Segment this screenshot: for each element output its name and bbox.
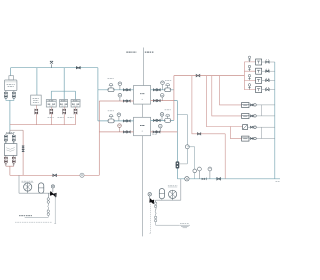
wire: tower2 left teal line bbox=[98, 120, 134, 122]
wire: gauge tap run bbox=[187, 147, 194, 179]
wire: PSV-2 vent bbox=[149, 204, 151, 233]
wire: branch riser 2 bbox=[206, 76, 242, 127]
gauge PI-9 bbox=[198, 167, 202, 171]
wire: main teal suction header bbox=[11, 67, 98, 69]
pulsation dampener D2 bbox=[159, 189, 164, 199]
block valves t1 left bottom bbox=[123, 100, 126, 102]
pump box P-1 bbox=[46, 100, 56, 107]
pump PD-2 label bbox=[168, 185, 178, 187]
wire: tower1 left red line bbox=[99, 100, 133, 102]
wire: branch 1 drop to header bbox=[224, 134, 226, 179]
gauge PI-10 bbox=[208, 167, 212, 171]
label row under discharge valves bbox=[48, 117, 55, 119]
pump PD-2 bbox=[169, 190, 177, 198]
wire: center skid pipe bbox=[156, 199, 181, 201]
block valves t1 right top bbox=[153, 89, 156, 91]
wire: hose drain run bbox=[25, 216, 49, 218]
discharge valves at x=75.5 bbox=[75, 107, 77, 109]
wire: header corner down to tower1 CV line bbox=[97, 68, 99, 90]
wire: tower2 right red line bbox=[151, 131, 178, 133]
relief valve PSV-2 gauge bbox=[148, 193, 151, 196]
node: drain label bbox=[19, 215, 32, 217]
wire: teal down to strainer bbox=[9, 100, 11, 130]
gauge PI-6 bbox=[160, 94, 164, 98]
wire: jog stub E1-E2 bbox=[261, 105, 263, 116]
wire: sampler column feed bbox=[243, 62, 245, 90]
gauge PI-4 bbox=[118, 124, 122, 128]
outlet valve E2 bbox=[250, 115, 253, 117]
node: line label B bbox=[145, 51, 154, 53]
node: drain label right bbox=[180, 223, 189, 225]
block valves t1 right bottom bbox=[153, 100, 156, 102]
dosing unit box B1 bbox=[31, 95, 42, 105]
wire: strainer inlet manifold bbox=[6, 130, 14, 135]
block valve t2 right bottom bbox=[153, 131, 156, 133]
strainer outlet valves right bbox=[12, 157, 15, 159]
vessel T-100 neck bbox=[9, 76, 14, 80]
relief valve PSV-1 bbox=[50, 192, 56, 197]
wire: vessel outlets bbox=[6, 91, 14, 93]
relief valve PSV-2 bbox=[150, 199, 154, 204]
flexible hose H1 bbox=[47, 193, 49, 198]
wire: jog stub SG1-E3 bbox=[261, 127, 263, 138]
block valves t1 left top bbox=[123, 89, 126, 91]
sampler unit S3 bbox=[248, 74, 261, 83]
pump box P-2 bbox=[60, 100, 68, 107]
dual check valve DC-1 bbox=[176, 161, 180, 168]
gauge PI-2 bbox=[118, 93, 122, 97]
wire: red supply main bbox=[10, 174, 99, 176]
wire: tower feed from top bbox=[143, 48, 145, 86]
wire: branch riser 1 bbox=[192, 76, 225, 134]
filter pot E3 bbox=[242, 136, 249, 141]
tower C-2 bbox=[134, 117, 151, 135]
control valve CV-2 bbox=[108, 119, 114, 123]
wire: tower2 right teal line bbox=[151, 119, 174, 121]
sampler unit S1 bbox=[248, 56, 261, 65]
wire: strainer bypass takeoff bbox=[10, 129, 23, 131]
wire: bottom teal header bbox=[177, 178, 280, 180]
wire: top red header bbox=[174, 75, 245, 77]
sampler unit S2 bbox=[248, 65, 261, 74]
wire: center skid suction drop bbox=[180, 179, 182, 200]
valve set row3 bbox=[262, 79, 275, 81]
outlet valve E3 bbox=[250, 138, 253, 140]
valve set row2 bbox=[262, 70, 275, 72]
wire: tower interconnect bbox=[141, 104, 143, 117]
valve set row1 bbox=[262, 61, 275, 63]
filter pot E1 bbox=[242, 103, 249, 108]
valve on red main bbox=[53, 174, 57, 176]
wire: tower bottoms line bbox=[141, 136, 143, 237]
gauge FI-1 bbox=[160, 113, 164, 117]
block valves t2 left bottom bbox=[123, 131, 126, 133]
wire: vessel outlet merge bbox=[6, 99, 14, 101]
control valve CV-3 bbox=[165, 88, 171, 92]
flexible hose H2 bbox=[155, 200, 157, 202]
strainer F-1 bbox=[4, 144, 17, 156]
wire: red riser right bbox=[173, 76, 175, 121]
node: line label A bbox=[126, 51, 136, 53]
discharge valves at x=51.3 bbox=[50, 107, 52, 109]
pulsation dampener D1 bbox=[39, 183, 44, 193]
node: header end dots bbox=[276, 181, 280, 183]
wire: tee down to pot E3 bbox=[230, 127, 241, 139]
outlet valve E1 bbox=[250, 104, 253, 106]
pump PD-1 label bbox=[22, 180, 34, 182]
wire: red riser to towers bbox=[98, 101, 100, 175]
wire: right teal collection riser bbox=[274, 62, 276, 179]
tower C-1 bbox=[134, 86, 151, 105]
wire: branch riser 4 bbox=[220, 76, 242, 105]
vent valve V1 bbox=[51, 64, 53, 68]
wire: left skid pipe bbox=[19, 192, 53, 194]
wire: tower2 left red line bbox=[99, 131, 133, 133]
wire: red pump discharge header bbox=[10, 124, 76, 126]
valve pair under vessel left bbox=[4, 92, 7, 94]
wire: hose drain run right bbox=[156, 222, 180, 225]
sampler unit S4 bbox=[248, 84, 261, 93]
block valves t2 right top bbox=[153, 119, 156, 121]
gauge PI-5 bbox=[161, 81, 165, 85]
strainer inlet valves right bbox=[12, 135, 15, 137]
valve on branch 1 bbox=[197, 133, 200, 135]
wire: drop to vessel neck bbox=[10, 68, 12, 76]
strainer inlet valves left bbox=[4, 135, 7, 137]
valve V2 on header bbox=[76, 67, 80, 69]
wire: tower1 left teal line bbox=[98, 89, 134, 91]
block valves t2 left top bbox=[123, 120, 126, 122]
control valve CV-1 bbox=[108, 88, 114, 92]
gauge PI-7 bbox=[159, 124, 163, 128]
wire: left skid suction drop bbox=[18, 175, 20, 193]
valve on teal header bbox=[217, 178, 221, 181]
flow indicator FI-3 bbox=[185, 177, 189, 181]
wire: strainer bypass leg bbox=[22, 130, 24, 175]
valve pair under vessel right bbox=[12, 92, 15, 94]
wire: strainer outlet merge bbox=[6, 166, 14, 175]
wire: PSV-1 vent bbox=[54, 194, 56, 224]
wire: teal riser to tower2 left bbox=[97, 90, 99, 121]
gauge PI-1 bbox=[118, 82, 122, 86]
drain valve on header bbox=[202, 178, 206, 181]
bypass valves bbox=[22, 146, 25, 148]
wire: pump box drops bbox=[51, 91, 75, 99]
gauge PI-8 bbox=[193, 169, 197, 173]
vessel T-100 bbox=[5, 80, 17, 91]
discharge valves at x=36.3 bbox=[35, 105, 37, 109]
valve set row4 bbox=[262, 89, 275, 91]
wire: flush jog branch bbox=[177, 115, 187, 164]
control valve CV-4 bbox=[165, 119, 171, 123]
node: line label bbox=[6, 131, 15, 133]
wire: pump feed header bbox=[51, 90, 75, 92]
wire: teal flush riser bbox=[174, 101, 178, 179]
outlet valve SG1 bbox=[250, 126, 253, 128]
strainer outlet valves left bbox=[4, 157, 7, 159]
wire: branch riser 3 bbox=[212, 76, 242, 116]
sight glass SG1 bbox=[243, 125, 248, 130]
wire: jog to check valve bbox=[180, 163, 188, 165]
filter pot E2 bbox=[242, 114, 249, 119]
gauge FI-2 bbox=[185, 145, 189, 149]
valve on top header bbox=[196, 74, 200, 76]
wire: drop to dosing box B1 bbox=[36, 68, 38, 95]
wire: tower1 right bottom line bbox=[151, 100, 174, 102]
gauge PI-3 bbox=[117, 113, 121, 117]
node: faint note row bbox=[15, 221, 52, 223]
node: tower bottom label bbox=[152, 133, 157, 135]
check valve on red main bbox=[80, 173, 84, 177]
pump PD-1 bbox=[24, 183, 32, 191]
wire: drop to pump feed header bbox=[63, 68, 65, 92]
pump box P-3 bbox=[71, 100, 80, 107]
discharge valves at x=64.2 bbox=[63, 107, 65, 109]
wire: tower1 right teal line bbox=[151, 89, 174, 91]
relief valve PSV-1 gauge bbox=[51, 185, 54, 188]
